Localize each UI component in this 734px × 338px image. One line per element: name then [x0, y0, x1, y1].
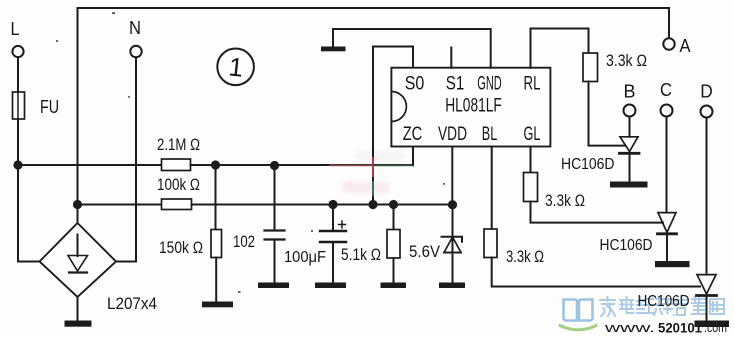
watermark red tint on wire [372, 158, 374, 176]
svg-text:RL: RL [524, 74, 541, 95]
wire bridge bottom to ground [77, 297, 79, 321]
svg-text:3.3k Ω: 3.3k Ω [545, 191, 585, 210]
svg-text:L207x4: L207x4 [107, 295, 157, 313]
top rail wire [78, 7, 670, 9]
wire row2 left (bridge row) [78, 204, 162, 206]
svg-text:150k Ω: 150k Ω [159, 238, 203, 257]
wire B to thyristor1 [629, 117, 631, 137]
watermark chinese text (approximated glyph blocks) [600, 297, 724, 316]
thyristor Q2 HC106D [658, 213, 676, 233]
svg-text:B: B [624, 82, 636, 102]
svg-text:VDD: VDD [438, 124, 467, 145]
fuse FU [13, 92, 25, 119]
capacitor 102 column [274, 166, 276, 231]
svg-text:5.6V: 5.6V [409, 242, 441, 261]
wire RL resistor to gate T1 [589, 82, 626, 146]
node junction bridge/row2 [73, 200, 82, 209]
op IC HL081LF body [391, 68, 550, 147]
bridge rectifier L207x4 diamond [40, 223, 117, 297]
watermark bottom-right group drawn first (under schematic) [343, 151, 727, 336]
ground 100uF [315, 283, 346, 289]
wire GND pin to ground [333, 29, 491, 68]
svg-text:5.1k Ω: 5.1k Ω [341, 245, 381, 264]
node junction 100uF [328, 200, 337, 209]
svg-text:100μF: 100μF [284, 249, 326, 266]
plus sign 100uF [339, 221, 346, 228]
resistor R 3.3k (BL) [484, 229, 497, 258]
wire column from rail to bridge top [77, 8, 79, 223]
wire L column to bridge left [18, 165, 40, 262]
wire C to thyristor2 [666, 117, 668, 213]
svg-text:2.1M Ω: 2.1M Ω [157, 135, 200, 154]
wire S0 column [373, 47, 413, 205]
resistor R 150k column [215, 165, 217, 230]
capacitor C 100uF [332, 205, 334, 232]
svg-text:102: 102 [233, 232, 255, 251]
svg-text:HC106D: HC106D [638, 293, 690, 310]
svg-text:HL081LF: HL081LF [445, 96, 502, 117]
watermark book icon [564, 300, 593, 321]
svg-text:GL: GL [524, 124, 541, 145]
svg-text:3.3k Ω: 3.3k Ω [606, 51, 647, 70]
svg-text:D: D [700, 82, 713, 102]
wire VDD pin [451, 147, 453, 205]
svg-text:C: C [660, 80, 672, 100]
svg-text:N: N [129, 18, 141, 38]
terminal L [12, 46, 23, 57]
ground thyristor3 [695, 321, 730, 328]
wire D to thyristor3 [706, 118, 708, 275]
ground 150k [202, 302, 233, 308]
node junction L-row [13, 160, 22, 169]
thyristor Q1 HC106D [620, 137, 638, 152]
ground zener [439, 283, 465, 289]
wire GL resistor to gate T2 [531, 202, 664, 223]
wire row1 right [191, 164, 414, 166]
node junction zener/VDD [448, 200, 457, 209]
pin S1 stub [450, 48, 452, 68]
terminal N [130, 46, 141, 57]
resistor R 5.1k [393, 205, 395, 230]
wire rail drop to terminal A [668, 8, 670, 38]
watermark book green swoosh [560, 326, 596, 330]
svg-text:A: A [680, 36, 691, 56]
ground 102 [258, 283, 289, 289]
svg-text:100k Ω: 100k Ω [157, 175, 200, 194]
faint center watermark residue [343, 182, 389, 193]
wire fuse to node [17, 119, 19, 165]
bridge inner diode [77, 235, 79, 257]
ground 5.1k [381, 283, 407, 289]
wire BL resistor to gate T3 [492, 258, 700, 287]
svg-text:www.: www. [603, 321, 655, 335]
ground thyristor2 [655, 261, 690, 267]
node junction 102 [270, 161, 279, 170]
resistor R 3.3k (GL) [524, 173, 538, 202]
svg-text:L: L [11, 19, 20, 39]
thyristor Q3 HC106D [697, 275, 716, 294]
terminal A [663, 38, 674, 49]
node junction 150k [211, 160, 220, 169]
wire N column down to bridge [116, 57, 136, 261]
ground bridge [65, 321, 92, 327]
wire BL pin to resistor [491, 147, 493, 230]
marker circle 1 [217, 49, 254, 86]
svg-text:3.3k Ω: 3.3k Ω [506, 247, 544, 266]
svg-text:BL: BL [482, 124, 498, 145]
svg-text:1: 1 [227, 51, 245, 82]
ground IC [321, 47, 346, 52]
terminal C [661, 105, 673, 117]
zener diode 5.6V [452, 205, 454, 283]
scan specks (texture) [56, 12, 445, 293]
wire ZC pin drop [412, 147, 414, 166]
node junction 5.1k [389, 200, 398, 209]
svg-text:FU: FU [40, 97, 59, 117]
svg-text:HC106D: HC106D [561, 156, 615, 173]
wire row2 right [192, 204, 453, 206]
svg-text:S1: S1 [446, 74, 465, 95]
resistor R 3.3k (RL) [583, 53, 598, 82]
terminal D [701, 106, 713, 118]
svg-text:GND: GND [477, 74, 502, 95]
wire L to fuse [17, 57, 19, 92]
wire RL pin to resistor [531, 29, 589, 68]
wire GL pin to resistor [530, 147, 532, 173]
ground thyristor1 [610, 182, 648, 188]
IC notch [391, 92, 406, 122]
resistor R 2.1M [162, 159, 191, 171]
resistor R 100k [162, 199, 192, 210]
wire row1 left (L row) [18, 164, 162, 166]
terminal B [624, 105, 636, 117]
node junction S0 wire [368, 200, 377, 209]
svg-text:HC106D: HC106D [600, 237, 653, 254]
svg-text:ZC: ZC [403, 124, 423, 145]
svg-text:S0: S0 [405, 74, 425, 95]
